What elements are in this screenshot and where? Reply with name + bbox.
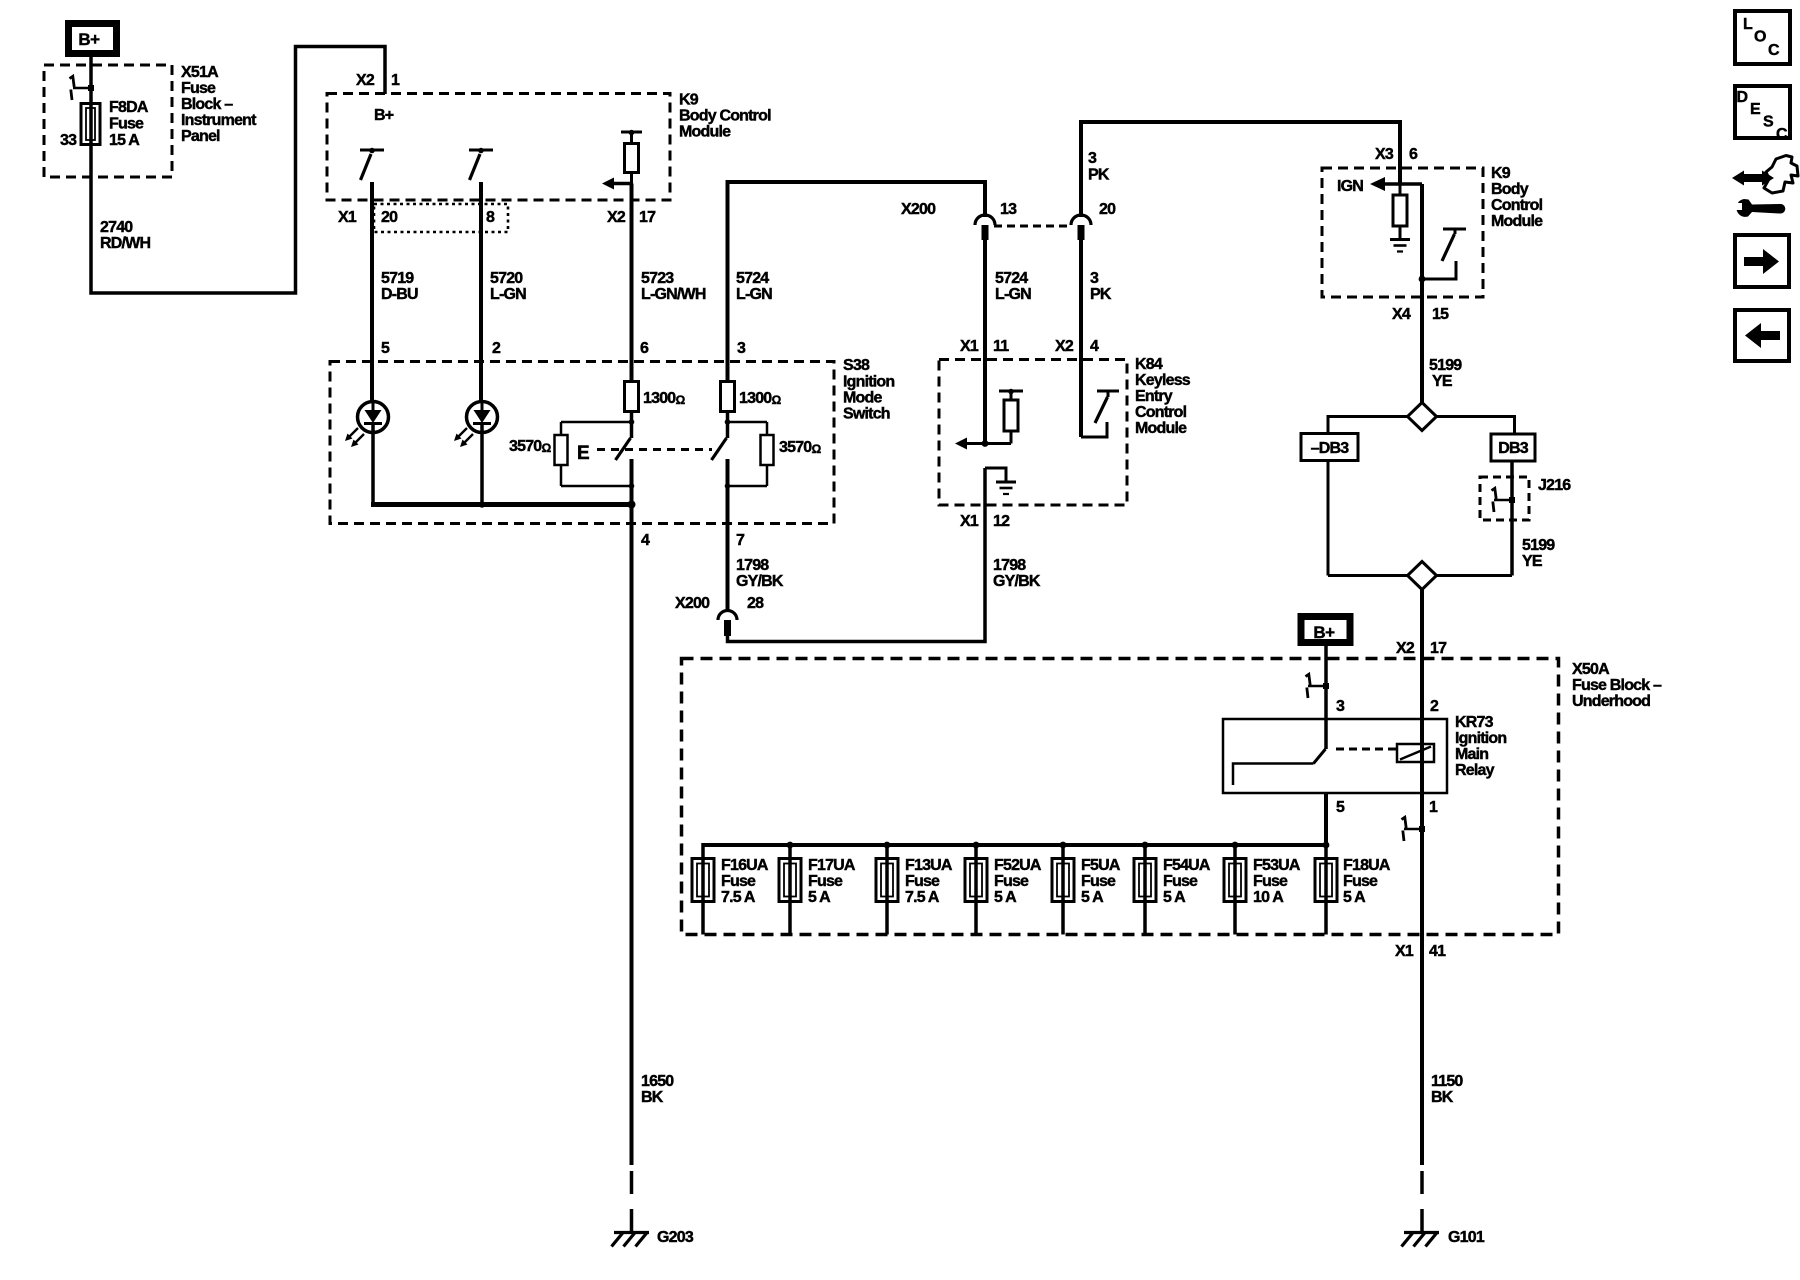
switch contact 2 inside K9 <box>469 148 493 180</box>
wire 5724 L-GN to K84 X1 11 <box>985 240 1031 444</box>
svg-text:F5UA: F5UA <box>1081 857 1121 874</box>
svg-text:28: 28 <box>747 595 764 612</box>
connector X200 pin 20 <box>1071 201 1116 240</box>
svg-text:L-GN: L-GN <box>490 286 526 303</box>
svg-text:F17UA: F17UA <box>808 857 856 874</box>
svg-text:5: 5 <box>1336 799 1345 816</box>
svg-text:Fuse: Fuse <box>808 873 843 890</box>
svg-text:12: 12 <box>993 513 1010 530</box>
svg-text:GY/BK: GY/BK <box>736 573 784 590</box>
module K9 Body Control Module (right) dashed outline <box>1322 168 1483 297</box>
svg-text:J216: J216 <box>1538 477 1571 494</box>
svg-text:11: 11 <box>993 338 1009 355</box>
nav button LOC <box>1735 11 1790 64</box>
svg-text:3: 3 <box>1336 698 1345 715</box>
connector terminal symbol at F8DA <box>70 76 95 100</box>
wire splice to X50A X2 17 <box>1420 590 1424 720</box>
svg-text:5724: 5724 <box>995 270 1028 287</box>
svg-text:2: 2 <box>492 340 501 357</box>
svg-text:5 A: 5 A <box>1081 889 1104 906</box>
svg-text:Fuse: Fuse <box>181 80 216 97</box>
svg-text:PK: PK <box>1088 167 1110 184</box>
pin label 2 <box>1430 698 1439 715</box>
svg-text:DB3: DB3 <box>1498 440 1529 457</box>
svg-text:Instrument: Instrument <box>181 112 257 129</box>
resistor to ground inside K9 <box>1393 184 1407 239</box>
svg-text:5 A: 5 A <box>1163 889 1186 906</box>
svg-text:Main: Main <box>1455 746 1488 763</box>
svg-text:X3: X3 <box>1375 146 1394 163</box>
svg-text:5724: 5724 <box>736 270 769 287</box>
wire label 5720 L-GN <box>490 270 526 303</box>
LED indicator 2 <box>454 402 498 507</box>
svg-text:3570 Ω: 3570 Ω <box>779 439 822 456</box>
svg-text:X200: X200 <box>901 201 936 218</box>
LED indicator 1 <box>345 402 389 507</box>
svg-text:F8DA: F8DA <box>109 99 149 116</box>
resistor (pull-up) inside K9 with contact bar <box>621 130 642 184</box>
pin labels X1 11 X2 4 <box>960 338 1099 355</box>
splice diamond (upper) <box>1408 403 1437 431</box>
svg-text:17: 17 <box>1430 640 1447 657</box>
svg-text:1300 Ω: 1300 Ω <box>739 390 782 407</box>
svg-text:41: 41 <box>1429 943 1446 960</box>
svg-text:1300 Ω: 1300 Ω <box>643 390 686 407</box>
svg-text:Fuse Block –: Fuse Block – <box>1572 677 1662 694</box>
svg-text:Body Control: Body Control <box>679 108 771 125</box>
svg-text:5: 5 <box>381 340 390 357</box>
svg-text:PK: PK <box>1090 286 1112 303</box>
nav button DESC <box>1735 86 1790 143</box>
fuse F18UA 5 A <box>1315 845 1391 935</box>
svg-text:3570 Ω: 3570 Ω <box>509 438 552 455</box>
resistor 1300 ohm (right) <box>721 382 782 439</box>
relay KR73 Ignition Main Relay box <box>1223 714 1506 793</box>
svg-text:3: 3 <box>1088 150 1097 167</box>
pin labels X1 12 <box>960 513 1010 530</box>
svg-text:1650: 1650 <box>641 1073 674 1090</box>
wire B+ to fuse F8DA <box>89 56 93 146</box>
signal direction arrow on X1 11 input <box>955 438 988 450</box>
wire IGN output pin X4 15 <box>1392 184 1462 403</box>
resistor 1300 ohm (left) <box>625 382 686 439</box>
svg-text:20: 20 <box>1099 201 1116 218</box>
ground G101 <box>1402 1229 1485 1247</box>
node B+ internal label <box>374 107 394 124</box>
svg-text:Module: Module <box>1135 420 1187 437</box>
connector X200 pass-through dashed link <box>994 225 1072 228</box>
connector terminal symbol inside J216 <box>1492 488 1516 512</box>
svg-text:X1: X1 <box>1395 943 1414 960</box>
svg-text:Entry: Entry <box>1135 388 1173 405</box>
svg-text:Keyless: Keyless <box>1135 372 1191 389</box>
svg-text:E: E <box>1750 101 1761 118</box>
svg-text:K84: K84 <box>1135 356 1163 373</box>
svg-text:5199: 5199 <box>1429 357 1462 374</box>
svg-text:BK: BK <box>1431 1089 1454 1106</box>
resistor 3570 ohm (left) parallel loop <box>509 419 634 489</box>
svg-text:2740: 2740 <box>100 219 133 236</box>
fuse F17UA 5 A <box>779 845 856 935</box>
pin labels X1 41 <box>1395 943 1446 960</box>
connector X200 pin 13 <box>901 201 1017 240</box>
svg-text:8: 8 <box>486 209 495 226</box>
svg-text:X2: X2 <box>607 209 626 226</box>
actuation label E with dashed link <box>577 443 712 464</box>
svg-text:15 A: 15 A <box>109 132 140 149</box>
svg-text:1150: 1150 <box>1431 1073 1463 1090</box>
connector pin row dotted box (X1 20 / 8) <box>374 204 508 232</box>
svg-text:–DB3: –DB3 <box>1311 440 1350 457</box>
svg-text:F53UA: F53UA <box>1253 857 1301 874</box>
svg-text:5199: 5199 <box>1522 537 1555 554</box>
wire -DB3 down run <box>1327 461 1330 576</box>
svg-text:BK: BK <box>641 1089 664 1106</box>
wire X2 17 through coil to pin 1 <box>1420 719 1424 1165</box>
svg-text:G101: G101 <box>1448 1229 1485 1246</box>
svg-text:Fuse: Fuse <box>1253 873 1288 890</box>
module K84 Keyless Entry Control Module dashed outline <box>939 360 1127 506</box>
svg-text:Relay: Relay <box>1455 762 1495 779</box>
pin labels X2 17 <box>1396 640 1447 657</box>
wire label 1150 BK <box>1431 1073 1463 1106</box>
svg-text:L-GN: L-GN <box>736 286 772 303</box>
fuse F8DA 15 A <box>60 99 149 149</box>
fuse F53UA 10 A <box>1224 845 1301 935</box>
relay coil <box>1397 744 1434 762</box>
svg-text:X200: X200 <box>675 595 710 612</box>
signal direction arrow (left) on pin X2 17 <box>602 178 632 190</box>
svg-text:5 A: 5 A <box>994 889 1017 906</box>
wire pin 7 (1798 GY/BK) <box>728 459 784 611</box>
svg-text:Switch: Switch <box>843 406 890 423</box>
svg-text:Underhood: Underhood <box>1572 693 1650 710</box>
svg-text:F18UA: F18UA <box>1343 857 1391 874</box>
svg-text:Module: Module <box>679 124 731 141</box>
svg-text:4: 4 <box>641 532 650 549</box>
wire 1798 GY/BK to K84 X1 12 <box>728 468 1041 642</box>
svg-text:L: L <box>1743 16 1753 33</box>
svg-text:RD/WH: RD/WH <box>100 235 150 252</box>
svg-text:5 A: 5 A <box>808 889 831 906</box>
svg-text:Panel: Panel <box>181 128 220 145</box>
switch contact inside K84 <box>1081 391 1119 437</box>
label X51A Fuse Block - Instrument Panel <box>181 64 257 145</box>
connector J216 dashed outline <box>1480 477 1571 520</box>
svg-text:5719: 5719 <box>381 270 414 287</box>
svg-text:3: 3 <box>737 340 746 357</box>
svg-text:IGN: IGN <box>1337 178 1363 195</box>
switch blade right (ignition mode) <box>712 438 727 460</box>
module K9 Body Control Module (top) dashed outline <box>327 94 670 201</box>
fuse F54UA 5 A <box>1134 845 1211 935</box>
svg-text:20: 20 <box>381 209 398 226</box>
wire to -DB3 <box>1328 417 1408 434</box>
wire pin 4 down to ground G203 <box>632 459 651 1165</box>
svg-text:Body: Body <box>1491 181 1529 198</box>
svg-text:1: 1 <box>1429 799 1438 816</box>
svg-text:7: 7 <box>736 532 745 549</box>
wire label 5723 L-GN/WH <box>641 270 706 303</box>
ground G203 <box>612 1229 694 1247</box>
wire 2740 RD/WH <box>91 47 385 294</box>
svg-text:Ignition: Ignition <box>843 374 894 391</box>
svg-text:6: 6 <box>640 340 649 357</box>
pin labels X1 20 8 X2 17 <box>338 209 656 226</box>
connector terminal symbol at relay pin 1 <box>1402 817 1426 841</box>
svg-text:F13UA: F13UA <box>905 857 953 874</box>
svg-text:6: 6 <box>1409 146 1418 163</box>
svg-text:D: D <box>1737 89 1748 106</box>
svg-text:X2: X2 <box>356 72 375 89</box>
svg-text:Fuse: Fuse <box>994 873 1029 890</box>
svg-text:B+: B+ <box>1313 623 1335 642</box>
fuse block X51A dashed outline <box>44 65 172 177</box>
in-line harness label DB3 <box>1491 434 1535 461</box>
resistor inside K84 with contact bar <box>967 389 1023 444</box>
svg-text:7.5 A: 7.5 A <box>721 889 756 906</box>
wire dashed tail to G101 <box>1420 1171 1424 1231</box>
svg-text:3: 3 <box>1090 270 1099 287</box>
svg-text:Fuse: Fuse <box>1163 873 1198 890</box>
svg-text:S38: S38 <box>843 357 870 374</box>
node IGN with direction arrow <box>1337 177 1422 195</box>
svg-text:4: 4 <box>1090 338 1099 355</box>
svg-text:X2: X2 <box>1055 338 1074 355</box>
fuse F16UA 7.5 A <box>692 843 769 935</box>
switch S38 Ignition Mode Switch dashed outline <box>330 362 834 524</box>
svg-text:1: 1 <box>391 72 400 89</box>
svg-text:Fuse: Fuse <box>109 116 144 133</box>
label K9 Body Control Module (top) <box>679 92 771 141</box>
svg-text:Control: Control <box>1491 197 1543 214</box>
wire 5724 L-GN upper run <box>728 182 986 382</box>
label S38 Ignition Mode Switch <box>843 357 894 423</box>
svg-text:GY/BK: GY/BK <box>993 573 1041 590</box>
svg-text:2: 2 <box>1430 698 1439 715</box>
fuse supply bus <box>703 842 1329 849</box>
splice diamond (lower) <box>1328 562 1512 590</box>
nav icon wiring harness view (arrows and outline) <box>1732 156 1798 217</box>
svg-text:13: 13 <box>1000 201 1017 218</box>
svg-text:K9: K9 <box>1491 165 1511 182</box>
ground symbol inside K84 <box>985 468 1016 494</box>
svg-text:X50A: X50A <box>1572 661 1610 678</box>
svg-text:10 A: 10 A <box>1253 889 1284 906</box>
svg-text:1798: 1798 <box>736 557 769 574</box>
svg-text:D-BU: D-BU <box>381 286 418 303</box>
svg-text:1798: 1798 <box>993 557 1026 574</box>
relay switch blade and contact <box>1233 749 1396 785</box>
wire 3 PK upper run to K9 X3 6 <box>1081 122 1400 217</box>
nav button back (left arrow) <box>1735 310 1789 361</box>
fuse F13UA 7.5 A <box>876 845 953 935</box>
ground symbol inside K9 <box>1390 240 1410 252</box>
svg-text:Fuse: Fuse <box>1343 873 1378 890</box>
wire B+ to relay pin 3 <box>1326 643 1345 749</box>
svg-text:L-GN/WH: L-GN/WH <box>641 286 706 303</box>
pin X2 1 (BCM battery input) <box>356 72 400 89</box>
svg-text:C: C <box>1776 126 1788 143</box>
wire 3 PK to K84 X2 4 <box>1081 240 1112 437</box>
wire 5723 L-GN/WH pin X2 17 <box>630 184 634 382</box>
wire dashed tail to G203 <box>630 1171 634 1231</box>
connector terminal symbol at relay pin 3 <box>1306 674 1330 698</box>
wire 5719 D-BU pin X1 20 <box>370 182 374 402</box>
svg-text:X2: X2 <box>1396 640 1415 657</box>
svg-text:YE: YE <box>1432 373 1453 390</box>
svg-text:Ignition: Ignition <box>1455 730 1506 747</box>
svg-text:5723: 5723 <box>641 270 674 287</box>
svg-text:C: C <box>1768 42 1780 59</box>
svg-text:Control: Control <box>1135 404 1187 421</box>
wire label 5724 L-GN <box>736 270 772 303</box>
fuse block X50A dashed outline <box>682 659 1559 935</box>
svg-text:33: 33 <box>60 132 77 149</box>
connector X200 pin 28 <box>675 595 764 636</box>
wire 5720 L-GN pin 8 <box>479 182 483 402</box>
svg-text:5 A: 5 A <box>1343 889 1366 906</box>
svg-text:15: 15 <box>1432 306 1449 323</box>
wire label 5719 D-BU <box>381 270 418 303</box>
switch contact 1 inside K9 <box>360 148 384 180</box>
svg-text:17: 17 <box>639 209 656 226</box>
svg-text:F16UA: F16UA <box>721 857 769 874</box>
fuse F52UA 5 A <box>965 845 1042 935</box>
svg-text:X1: X1 <box>960 513 979 530</box>
svg-text:Fuse: Fuse <box>1081 873 1116 890</box>
label K84 Keyless Entry Control Module <box>1135 356 1191 437</box>
resistor 3570 ohm (right) parallel loop <box>725 419 822 489</box>
svg-text:X51A: X51A <box>181 64 219 81</box>
fuse F5UA 5 A <box>1052 845 1121 935</box>
svg-text:E: E <box>577 443 590 464</box>
svg-text:Module: Module <box>1491 213 1543 230</box>
svg-text:Fuse: Fuse <box>905 873 940 890</box>
svg-text:B+: B+ <box>374 107 394 124</box>
svg-text:Fuse: Fuse <box>721 873 756 890</box>
in-line harness label -DB3 <box>1301 434 1358 461</box>
nav button next (right arrow) <box>1735 235 1789 287</box>
svg-text:5720: 5720 <box>490 270 523 287</box>
wire relay pin 5 to fuse bus <box>1324 793 1328 845</box>
svg-text:O: O <box>1754 29 1766 46</box>
label K9 Body Control Module (right) <box>1491 165 1543 230</box>
svg-text:7.5 A: 7.5 A <box>905 889 940 906</box>
power symbol B+ (battery feed, instrument panel) <box>69 24 117 54</box>
relay coil slash <box>1400 747 1431 760</box>
pin labels X3 6 <box>1375 146 1418 163</box>
switch contact inside K9 (ignition relay drive) <box>1419 229 1466 282</box>
svg-text:L-GN: L-GN <box>995 286 1031 303</box>
wire DB3 down run 5199 YE <box>1512 461 1555 576</box>
wire label 1650 BK <box>641 1073 674 1106</box>
svg-text:B+: B+ <box>78 30 100 49</box>
pin numbers 5 2 6 3 at S38 <box>381 340 746 357</box>
svg-text:YE: YE <box>1522 553 1543 570</box>
pin labels 5 1 <box>1336 799 1438 816</box>
svg-text:F52UA: F52UA <box>994 857 1042 874</box>
svg-text:X1: X1 <box>338 209 357 226</box>
power symbol B+ (underhood) <box>1301 617 1350 643</box>
svg-text:X4: X4 <box>1392 306 1411 323</box>
svg-text:X1: X1 <box>960 338 979 355</box>
svg-text:KR73: KR73 <box>1455 714 1494 731</box>
svg-text:F54UA: F54UA <box>1163 857 1211 874</box>
svg-text:S: S <box>1763 114 1774 131</box>
switch blade left (ignition mode) <box>616 438 631 460</box>
LED common bus wire <box>371 501 636 509</box>
label X50A Fuse Block - Underhood <box>1572 661 1662 710</box>
svg-text:Mode: Mode <box>843 390 882 407</box>
svg-text:G203: G203 <box>657 1229 694 1246</box>
svg-text:K9: K9 <box>679 92 699 109</box>
svg-text:Block –: Block – <box>181 96 233 113</box>
wire to DB3 <box>1437 417 1515 435</box>
